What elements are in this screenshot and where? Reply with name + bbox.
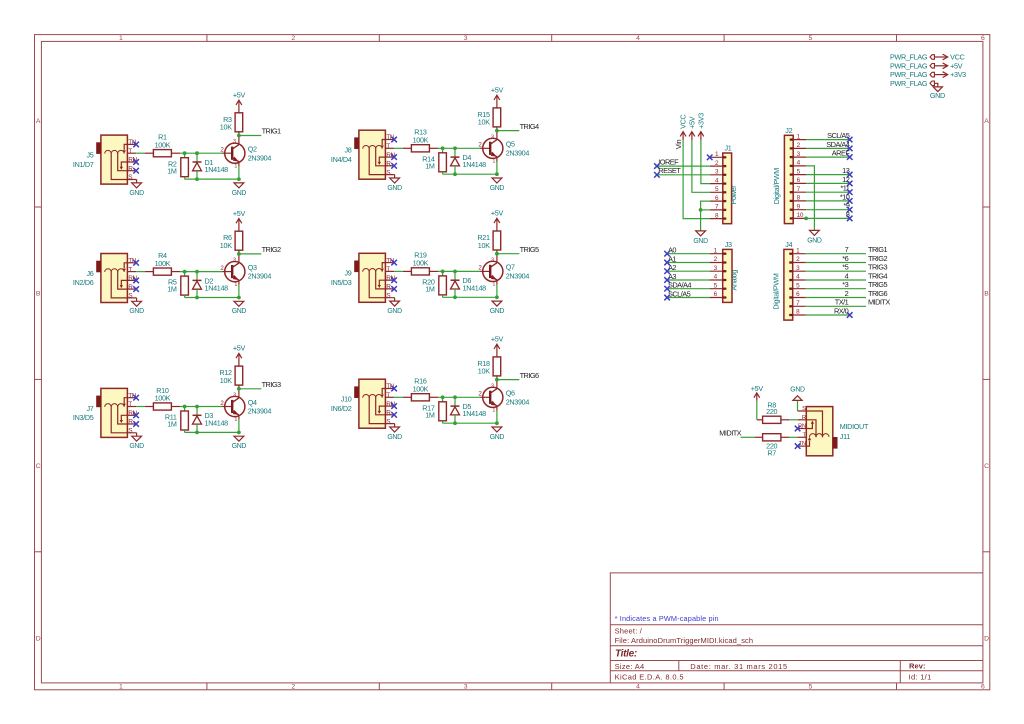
wire J2 pin10: [806, 217, 850, 219]
wire J3 pin1: [667, 253, 710, 255]
junction: [441, 146, 445, 150]
ground: [490, 301, 505, 315]
wire R7-T: [789, 436, 798, 438]
svg-text:GND: GND: [129, 308, 144, 315]
no-connect J7 RN: [133, 413, 139, 419]
wire: [438, 396, 480, 398]
wire: [394, 147, 403, 149]
label *9: [843, 201, 849, 210]
junction: [495, 252, 499, 256]
no-connect: [847, 172, 853, 178]
wire: [443, 173, 497, 175]
ground: [490, 178, 505, 192]
svg-text:SDA/A4: SDA/A4: [668, 281, 691, 290]
wire J3 pin4: [667, 279, 710, 281]
text Date: [690, 662, 788, 671]
svg-text:TRIG6: TRIG6: [520, 371, 539, 380]
svg-text:MIDIOUT: MIDIOUT: [840, 422, 869, 431]
svg-text:J10: J10: [341, 395, 352, 404]
svg-text:100K: 100K: [413, 385, 429, 394]
svg-text:1: 1: [492, 159, 495, 165]
svg-text:Date: mar. 31 mars 2015: Date: mar. 31 mars 2015: [690, 662, 788, 671]
junction: [495, 421, 499, 425]
wire: [185, 297, 239, 299]
wire: [185, 178, 239, 180]
resistor R12: [219, 357, 242, 389]
svg-text:100K: 100K: [413, 259, 429, 268]
no-connect: [847, 198, 853, 204]
no-connect J5 TN: [133, 142, 139, 148]
svg-text:C: C: [36, 463, 41, 470]
junction: [237, 387, 241, 391]
svg-text:RX/0: RX/0: [834, 306, 849, 315]
wire J2 pin6: [806, 182, 850, 184]
svg-text:2: 2: [845, 289, 849, 298]
wire: [136, 406, 145, 408]
wire pin7: [701, 209, 710, 211]
power +5V: [233, 209, 246, 224]
svg-text:1: 1: [492, 408, 495, 414]
resistor R20: [422, 271, 446, 297]
junction: [237, 177, 241, 181]
diode D1: [193, 153, 229, 179]
label MIDITX: [868, 298, 890, 307]
power +5V: [751, 384, 764, 401]
wire J2 pin2: [806, 147, 850, 149]
wire +3V3-pin4: [701, 140, 710, 183]
svg-text:3: 3: [233, 139, 236, 145]
svg-text:PWR_FLAG: PWR_FLAG: [890, 61, 928, 70]
svg-text:100K: 100K: [155, 259, 171, 268]
resistor R5: [167, 272, 188, 298]
svg-text:KiCad E.D.A. 8.0.5: KiCad E.D.A. 8.0.5: [615, 672, 684, 681]
no-connect: [847, 154, 853, 160]
junction: [183, 151, 187, 155]
wire J2 pin7: [806, 191, 850, 193]
diode D2: [193, 272, 229, 298]
svg-text:TRIG5: TRIG5: [868, 280, 887, 289]
junction: [495, 295, 499, 299]
svg-text:10K: 10K: [478, 118, 490, 127]
connector J10 audio jack: [331, 379, 396, 428]
svg-text:VCC: VCC: [679, 115, 688, 129]
label SCL/A5: [668, 289, 691, 298]
svg-text:10: 10: [797, 212, 804, 219]
svg-text:J8: J8: [345, 146, 352, 155]
label TRIG5: [520, 245, 539, 254]
svg-text:AREF: AREF: [832, 149, 851, 158]
svg-text:TRIG2: TRIG2: [868, 254, 887, 263]
svg-text:*5: *5: [842, 263, 848, 272]
connector J3 Analog: [710, 240, 739, 302]
svg-text:Digital/PWM: Digital/PWM: [772, 273, 781, 310]
junction: [237, 296, 241, 300]
no-connect: [847, 216, 853, 222]
svg-text:GND: GND: [790, 386, 805, 393]
svg-text:1: 1: [492, 282, 495, 288]
svg-text:GND: GND: [693, 238, 708, 245]
label 13: [842, 166, 850, 175]
svg-text:GND: GND: [387, 185, 402, 192]
wire: [443, 296, 497, 298]
svg-text:3: 3: [233, 258, 236, 264]
svg-text:TRIG4: TRIG4: [520, 122, 539, 131]
svg-text:2N3904: 2N3904: [506, 148, 530, 157]
no-connect J5 R: [133, 168, 139, 174]
junction: [441, 395, 445, 399]
svg-text:J3: J3: [725, 240, 732, 249]
no-connect: [664, 277, 670, 283]
ground J10: [387, 424, 402, 441]
no-connect J1 pin1: [707, 155, 713, 161]
wire: [438, 147, 480, 149]
svg-text:+5V: +5V: [233, 344, 246, 353]
svg-text:1N4148: 1N4148: [205, 418, 229, 427]
wire J3 pin2: [667, 262, 710, 264]
label *3: [842, 280, 848, 289]
ground: [232, 301, 247, 315]
junction: [195, 270, 199, 274]
no-connect J11 RN: [795, 426, 801, 432]
wire TRIG: [497, 253, 519, 255]
text Title: [615, 649, 637, 660]
svg-text:7: 7: [845, 245, 849, 254]
no-connect J6 R: [133, 286, 139, 292]
svg-text:T: T: [386, 392, 390, 399]
svg-text:T: T: [128, 148, 132, 155]
label *5: [842, 263, 848, 272]
svg-text:RESET: RESET: [658, 166, 681, 175]
ground J2: [807, 230, 822, 244]
wire VCC-pin8: [683, 140, 710, 218]
svg-text:2: 2: [291, 684, 295, 691]
svg-text:MIDITX: MIDITX: [868, 298, 890, 307]
svg-text:J7: J7: [87, 404, 94, 413]
svg-text:4: 4: [845, 271, 849, 280]
svg-text:+5V: +5V: [491, 86, 504, 95]
svg-text:6: 6: [981, 684, 985, 691]
svg-text:Power: Power: [729, 185, 738, 205]
svg-text:GND: GND: [232, 190, 247, 197]
svg-text:1N4148: 1N4148: [463, 409, 487, 418]
connector J7 audio jack: [73, 388, 138, 437]
no-connect: [664, 260, 670, 266]
svg-text:J2: J2: [785, 126, 792, 135]
ground J7: [129, 433, 144, 450]
no-connect J11 TN: [795, 443, 801, 449]
wire +5V-pin5: [692, 140, 710, 192]
power flag GND: [890, 79, 945, 100]
transistor Q4: [220, 389, 271, 433]
svg-text:R: R: [386, 284, 391, 291]
power +5V: [233, 344, 246, 359]
svg-text:SCL/A5: SCL/A5: [668, 289, 691, 298]
wire IOREF: [657, 165, 710, 167]
text Rev: [909, 662, 926, 671]
svg-text:GND: GND: [490, 185, 505, 192]
svg-text:1M: 1M: [167, 285, 177, 294]
svg-text:TRIG1: TRIG1: [262, 127, 281, 136]
label TRIG5: [868, 280, 887, 289]
connector J4 Digital/PWM: [772, 240, 806, 320]
svg-text:2N3904: 2N3904: [248, 407, 272, 416]
svg-text:GND: GND: [930, 91, 945, 100]
junction: [453, 421, 457, 425]
resistor R21: [477, 222, 500, 254]
junction: [453, 270, 457, 274]
label 2: [845, 289, 849, 298]
label SDA/A4: [668, 281, 691, 290]
svg-text:TRIG1: TRIG1: [868, 245, 887, 254]
svg-text:Q5: Q5: [506, 140, 515, 149]
label 12: [842, 175, 850, 184]
svg-text:2N3904: 2N3904: [506, 397, 530, 406]
junction: [195, 431, 199, 435]
resistor R7: [755, 434, 789, 458]
svg-text:PWR_FLAG: PWR_FLAG: [890, 79, 928, 88]
junction: [495, 172, 499, 176]
label TRIG1: [868, 245, 887, 254]
label TRIG2: [262, 245, 281, 254]
wire J4 pin2: [806, 262, 866, 264]
svg-text:GND: GND: [807, 237, 822, 244]
resistor R14: [422, 148, 446, 174]
svg-text:TRIG3: TRIG3: [262, 380, 281, 389]
wire: [180, 152, 222, 154]
resistor R16: [403, 377, 438, 401]
svg-text:J4: J4: [785, 240, 792, 249]
svg-text:1M: 1M: [425, 161, 435, 170]
label TRIG4: [868, 271, 887, 280]
resistor R4: [145, 251, 180, 275]
svg-text:+3V3: +3V3: [950, 70, 966, 79]
svg-text:100K: 100K: [155, 140, 171, 149]
svg-text:GND: GND: [387, 308, 402, 315]
power +5V: [491, 335, 504, 350]
resistor R19: [403, 251, 438, 275]
wire TRIG: [239, 388, 261, 390]
ground J1: [693, 231, 708, 245]
svg-text:10K: 10K: [220, 376, 232, 385]
connector J1 Power: [710, 144, 738, 224]
no-connect: [664, 295, 670, 301]
svg-text:J1: J1: [725, 144, 732, 153]
no-connect J6 TN: [133, 260, 139, 266]
svg-text:3: 3: [464, 684, 468, 691]
wire J3 pin3: [667, 270, 710, 272]
junction: [453, 395, 457, 399]
svg-text:T: T: [128, 401, 132, 408]
label TRIG3: [262, 380, 281, 389]
power +5V: [491, 209, 504, 224]
svg-text:1: 1: [119, 684, 123, 691]
wire +5V-R8: [756, 401, 758, 420]
svg-text:5: 5: [809, 684, 813, 691]
svg-text:A3: A3: [668, 272, 676, 281]
transistor Q2: [220, 136, 271, 180]
ground J11: [790, 386, 805, 411]
connector J6 audio jack: [73, 254, 138, 303]
svg-text:Q7: Q7: [506, 263, 515, 272]
junction: [495, 378, 499, 382]
wire J2 pin4-gnd: [806, 166, 814, 231]
svg-text:VCC: VCC: [950, 53, 964, 62]
svg-text:TX/1: TX/1: [835, 298, 849, 307]
no-connect J9 R: [391, 286, 397, 292]
svg-text:Q4: Q4: [248, 398, 257, 407]
no-connect: [664, 286, 670, 292]
svg-text:J11: J11: [840, 432, 850, 441]
no-connect: [847, 189, 853, 195]
junction: [453, 172, 457, 176]
title block: [610, 573, 983, 683]
diode D4: [451, 148, 487, 174]
svg-text:PWR_FLAG: PWR_FLAG: [890, 53, 928, 62]
svg-text:2: 2: [291, 35, 295, 42]
svg-text:GND: GND: [490, 434, 505, 441]
no-connect: [847, 181, 853, 187]
svg-text:1M: 1M: [167, 166, 177, 175]
no-connect J8 RN: [391, 154, 397, 160]
svg-text:Title:: Title:: [615, 649, 637, 660]
svg-text:GND: GND: [387, 434, 402, 441]
junction: [195, 151, 199, 155]
label A3: [668, 272, 676, 281]
text KiCad: [615, 672, 684, 681]
svg-text:1: 1: [119, 35, 123, 42]
no-connect J6 RN: [133, 278, 139, 284]
svg-text:100K: 100K: [413, 136, 429, 145]
label SCL/A5: [827, 131, 850, 140]
wire J2 pin8: [806, 200, 850, 202]
wire TRIG: [239, 135, 261, 137]
wire J2 pin1: [806, 139, 850, 141]
junction: [183, 270, 187, 274]
svg-text:1M: 1M: [425, 410, 435, 419]
svg-text:Id: 1/1: Id: 1/1: [909, 672, 932, 681]
wire pin6-gnd: [701, 201, 710, 231]
wire J4 pin5: [806, 288, 866, 290]
svg-text:SCL/A5: SCL/A5: [827, 131, 850, 140]
no-connect: [847, 312, 853, 318]
svg-text:R: R: [386, 161, 391, 168]
no-connect: [664, 268, 670, 274]
connector J11 MIDIOUT jack: [798, 406, 869, 456]
no-connect J9 RN: [391, 277, 397, 283]
svg-text:J9: J9: [345, 269, 352, 278]
resistor R10: [145, 386, 180, 410]
svg-text:3: 3: [464, 35, 468, 42]
transistor Q5: [478, 131, 529, 175]
wire J4 pin8: [806, 314, 850, 316]
ground J8: [387, 175, 402, 192]
junction: [453, 295, 457, 299]
svg-text:Analog: Analog: [730, 270, 739, 291]
resistor R8: [757, 400, 789, 423]
svg-text:IN2/D6: IN2/D6: [73, 278, 94, 287]
wire J4 pin6: [806, 297, 866, 299]
wire J4 pin7: [806, 305, 866, 307]
svg-text:Q6: Q6: [506, 389, 515, 398]
wire TRIG: [239, 253, 261, 255]
svg-text:GND: GND: [490, 308, 505, 315]
svg-text:*6: *6: [842, 254, 848, 263]
svg-text:IN6/D2: IN6/D2: [331, 404, 352, 413]
junction: [453, 146, 457, 150]
wire: [438, 270, 480, 272]
svg-text:SDA/A4: SDA/A4: [826, 140, 849, 149]
label TX/1: [835, 298, 849, 307]
svg-text:R: R: [386, 410, 391, 417]
svg-text:+5V: +5V: [751, 384, 764, 393]
ground J5: [129, 180, 144, 197]
wire: [394, 396, 403, 398]
svg-text:100K: 100K: [155, 394, 171, 403]
junction: [195, 405, 199, 409]
svg-text:IN5/D3: IN5/D3: [331, 278, 352, 287]
junction: [195, 177, 199, 181]
svg-text:J5: J5: [87, 151, 94, 160]
svg-text:D: D: [984, 635, 989, 642]
junction: [237, 134, 241, 138]
svg-text:GND: GND: [232, 308, 247, 315]
svg-text:R: R: [128, 419, 133, 426]
svg-text:Digital/PWM: Digital/PWM: [772, 168, 781, 205]
ground: [490, 427, 505, 441]
svg-text:IN1/D7: IN1/D7: [73, 160, 94, 169]
wire: [443, 422, 497, 424]
label *6: [842, 254, 848, 263]
svg-text:IN4/D4: IN4/D4: [331, 155, 352, 164]
diode D6: [451, 271, 487, 297]
svg-text:TRIG5: TRIG5: [520, 245, 539, 254]
svg-text:C: C: [984, 463, 989, 470]
wire: [180, 406, 222, 408]
svg-text:5: 5: [809, 35, 813, 42]
label TRIG6: [868, 289, 887, 298]
svg-text:+5V: +5V: [233, 90, 246, 99]
label *10: [840, 192, 850, 201]
svg-text:1: 1: [234, 417, 237, 423]
label TRIG1: [262, 127, 281, 136]
no-connect: [847, 137, 853, 143]
svg-text:1N4148: 1N4148: [205, 165, 229, 174]
wire TRIG: [497, 130, 519, 132]
svg-text:D: D: [36, 635, 41, 642]
text File: [615, 636, 754, 645]
junction: [495, 129, 499, 133]
svg-text:R: R: [802, 415, 806, 421]
no-connect: [664, 251, 670, 257]
power VCC: [679, 115, 688, 141]
svg-text:6: 6: [981, 35, 985, 42]
label RX/0: [834, 306, 849, 315]
resistor R2: [167, 153, 188, 179]
power +5V: [491, 86, 504, 101]
wire J4 pin3: [806, 270, 866, 272]
label TRIG2: [868, 254, 887, 263]
junction: [195, 296, 199, 300]
no-connect RESET: [654, 172, 660, 178]
svg-text:1N4148: 1N4148: [463, 160, 487, 169]
svg-text:+5V: +5V: [233, 209, 246, 218]
svg-text:T: T: [386, 143, 390, 150]
junction: [804, 217, 808, 221]
svg-text:R7: R7: [767, 449, 776, 458]
note PWM: [615, 614, 719, 623]
svg-text:GND: GND: [129, 190, 144, 197]
resistor R1: [145, 133, 180, 157]
